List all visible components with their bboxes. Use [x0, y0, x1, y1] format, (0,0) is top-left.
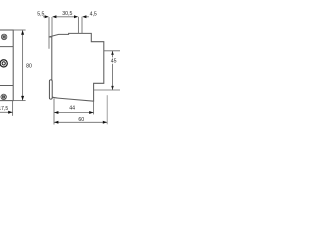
svg-text:44: 44 — [69, 106, 75, 112]
svg-text:45: 45 — [111, 59, 117, 65]
svg-text:80: 80 — [26, 63, 32, 69]
svg-text:30,5: 30,5 — [62, 11, 72, 17]
svg-text:4,5: 4,5 — [90, 11, 97, 17]
svg-text:5,5: 5,5 — [37, 12, 44, 18]
svg-text:60: 60 — [78, 117, 84, 123]
svg-text:17,5: 17,5 — [0, 106, 8, 112]
